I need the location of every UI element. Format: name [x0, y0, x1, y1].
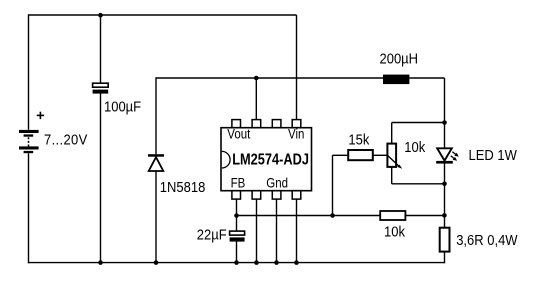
svg-text:7...20V: 7...20V	[44, 131, 88, 148]
svg-text:10k: 10k	[384, 223, 405, 240]
svg-text:Vout: Vout	[227, 127, 250, 142]
svg-text:200µH: 200µH	[380, 50, 419, 67]
svg-text:FB: FB	[231, 175, 246, 190]
svg-text:3,6R 0,4W: 3,6R 0,4W	[456, 231, 518, 248]
svg-text:Gnd: Gnd	[266, 176, 288, 191]
svg-text:LED 1W: LED 1W	[469, 146, 518, 163]
svg-text:10k: 10k	[404, 138, 425, 155]
svg-text:22µF: 22µF	[197, 226, 227, 243]
svg-text:LM2574-ADJ: LM2574-ADJ	[232, 150, 309, 167]
svg-text:15k: 15k	[348, 131, 369, 148]
svg-text:1N5818: 1N5818	[160, 178, 206, 195]
svg-text:Vin: Vin	[288, 127, 304, 142]
svg-text:100µF: 100µF	[104, 98, 141, 115]
